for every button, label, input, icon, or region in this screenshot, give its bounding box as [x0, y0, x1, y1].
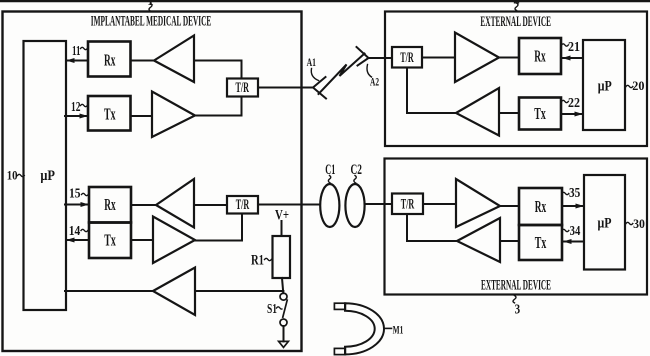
svg-text:20: 20 [632, 79, 644, 93]
svg-text:EXTERNAL DEVICE: EXTERNAL DEVICE [481, 278, 551, 294]
Tx block 22 box [519, 98, 561, 130]
RF link lightning [319, 54, 365, 95]
wire Tx 12 to amp B [131, 115, 153, 117]
wire Tx 34 to amp F [500, 240, 519, 242]
label 12 tilde lead [81, 104, 88, 106]
label 35 tilde lead [562, 192, 569, 194]
svg-text:A2: A2 [370, 77, 379, 89]
page top edge line [0, 0, 650, 2]
wire T/R to amp E [423, 203, 456, 205]
resistor R1 box [273, 236, 291, 278]
Rx block 11 box [88, 42, 131, 77]
svg-text:22: 22 [568, 95, 580, 110]
arrow into Rx 21 (left) [562, 56, 571, 61]
label S1 tilde lead [277, 307, 282, 309]
microprocessor uP 20 box [583, 40, 625, 130]
label C1 squiggle lead [328, 176, 330, 184]
label 30 tilde lead [626, 222, 633, 224]
wire uP 30 to Tx 34 [562, 241, 584, 243]
label 14 tilde lead [81, 229, 88, 231]
wire amp G to T/R [194, 204, 227, 206]
arrow into uP 30 (right) [576, 204, 585, 209]
label 20 tilde lead [626, 85, 633, 87]
implantable medical device outer box [3, 12, 302, 352]
label 21 tilde lead [562, 44, 569, 46]
T/R block (external upper) [392, 47, 422, 68]
wire T/R to coil C1 [258, 204, 320, 206]
svg-text:M1: M1 [393, 324, 404, 336]
wire amp B to T/R bottom [195, 97, 242, 116]
wire Rx 15 to amp G [131, 204, 156, 206]
external device 3 (lower) outer box [385, 159, 648, 295]
svg-text:12: 12 [71, 100, 81, 115]
arrow into Tx 34 (left) [563, 239, 572, 244]
label 11 tilde lead [81, 47, 88, 49]
op-amp E (points right) [456, 179, 500, 227]
microprocessor uP 10 box [24, 41, 67, 310]
T/R block (external lower) [392, 194, 423, 215]
op-amp H (points right) [153, 217, 195, 264]
label C2 squiggle lead [354, 176, 356, 184]
wire switch to ground [283, 326, 285, 341]
svg-text:IMPLANTABEL MEDICAL DEVICE: IMPLANTABEL MEDICAL DEVICE [91, 14, 212, 30]
svg-text:15: 15 [69, 187, 81, 202]
svg-text:Rx: Rx [534, 47, 546, 66]
magnet M1 top pole [334, 303, 345, 309]
wire amp E to Rx 35 [500, 205, 519, 207]
wire Tx 22 to amp D [499, 112, 519, 114]
arrow into Tx (right) [80, 114, 89, 119]
wire uP to Tx 12 [65, 115, 88, 117]
T/R block (implant bottom) [227, 196, 258, 214]
svg-text:Rx: Rx [104, 51, 116, 70]
svg-text:T/R: T/R [400, 50, 414, 66]
op-amp B (transmit, points right) [152, 92, 195, 138]
svg-text:μP: μP [598, 215, 612, 231]
svg-text:1: 1 [147, 0, 154, 8]
coil C1 [320, 184, 339, 227]
switch S1 arm [283, 300, 287, 317]
magnet M1 bottom pole [334, 348, 345, 354]
label 15 tilde lead [82, 193, 89, 195]
svg-text:R1: R1 [251, 253, 264, 269]
op-amp G (points left) [156, 179, 194, 228]
svg-text:3: 3 [515, 302, 521, 317]
wire uP to Rx 15 [65, 204, 89, 206]
wire amp H to T/R bottom [195, 214, 242, 241]
antenna A1 fork [313, 77, 326, 99]
T/R block (implant top) [227, 79, 258, 97]
label 3 squiggle lead [513, 296, 516, 303]
svg-text:Tx: Tx [535, 233, 547, 252]
svg-text:C1: C1 [325, 162, 335, 178]
svg-text:Tx: Tx [104, 231, 116, 250]
label 10 tilde lead [18, 174, 25, 176]
svg-text:Rx: Rx [104, 195, 116, 214]
wire amp C to Rx 21 [499, 57, 519, 59]
label M1 tick lead [384, 327, 391, 329]
svg-text:μP: μP [598, 79, 612, 95]
Tx block 34 box [519, 225, 562, 260]
Tx block 14 box [89, 223, 131, 259]
svg-text:21: 21 [568, 40, 580, 55]
wire amp A to T/R top [194, 61, 242, 79]
svg-text:μP: μP [40, 168, 55, 184]
wire Rx 11 to uP [66, 60, 88, 62]
label R1 tilde lead [265, 258, 272, 260]
arrow into uP 20 (right) [575, 112, 584, 117]
wire antenna A2 to external T/R [369, 57, 393, 59]
wire switch node to amp I [195, 290, 283, 292]
svg-text:34: 34 [570, 224, 581, 239]
svg-text:T/R: T/R [236, 80, 250, 96]
svg-text:10: 10 [7, 168, 18, 182]
ground [279, 341, 289, 347]
svg-text:T/R: T/R [236, 197, 250, 213]
arrow into uP (left) [66, 58, 75, 63]
op-amp A (receive, points left) [154, 36, 194, 83]
label 1 squiggle lead [149, 4, 152, 12]
wire uP 20 to Rx 21 [561, 57, 583, 59]
svg-text:EXTERNAL DEVICE: EXTERNAL DEVICE [480, 14, 551, 30]
wire T/R to amp C [422, 57, 455, 59]
magnet M1 horseshoe body [345, 303, 384, 354]
wire Rx 35 to uP 30 [562, 205, 584, 207]
wire Rx 11 to amplifier [131, 60, 155, 62]
svg-text:11: 11 [72, 44, 81, 59]
coil C2 [345, 184, 364, 227]
label 34 tilde lead [562, 229, 569, 231]
Tx block 12 box [88, 96, 131, 131]
svg-text:2: 2 [513, 0, 520, 7]
antenna A2 fork [357, 47, 369, 66]
microprocessor uP 30 box [584, 175, 625, 270]
arrow into uP (left) [66, 238, 75, 243]
svg-text:30: 30 [633, 217, 645, 231]
wire amp F to T/R [407, 214, 457, 241]
label A1 leader arc [311, 69, 318, 81]
external device 2 (upper) outer box [385, 12, 647, 147]
svg-text:Rx: Rx [535, 197, 547, 216]
svg-text:14: 14 [69, 224, 81, 239]
switch S1 lower contact [280, 319, 287, 326]
wire amp D to T/R [407, 68, 456, 114]
svg-text:T/R: T/R [401, 197, 415, 213]
svg-text:A1: A1 [307, 57, 317, 69]
wire Tx 22 to uP 20 [561, 113, 583, 115]
svg-text:V+: V+ [275, 208, 289, 224]
label 2 squiggle lead [515, 3, 518, 10]
arrow into Rx 15 (right) [81, 202, 90, 207]
wire T/R to antenna A1 [258, 87, 313, 89]
wire coil C2 to T/R [365, 203, 393, 205]
Rx block 15 box [89, 187, 131, 223]
svg-text:Tx: Tx [534, 104, 546, 123]
svg-text:S1: S1 [267, 301, 277, 316]
wire R1 to switch node [282, 278, 283, 293]
wire Tx 14 to uP [66, 239, 89, 241]
switch S1 upper contact [280, 293, 287, 300]
wire amp I to uP [65, 290, 153, 292]
op-amp C (points right) [455, 33, 499, 83]
op-amp I (points left, magnet sense) [153, 268, 195, 316]
wire Tx 14 to amp H [131, 239, 153, 241]
op-amp D (points left) [456, 88, 499, 136]
svg-text:Tx: Tx [104, 104, 116, 123]
label A2 leader arc [367, 65, 372, 78]
svg-text:C2: C2 [351, 162, 362, 178]
svg-text:35: 35 [569, 185, 581, 200]
wire V+ to resistor R1 [281, 221, 283, 236]
Rx block 21 box [519, 38, 561, 74]
Rx block 35 box [519, 188, 562, 225]
label 22 tilde lead [562, 100, 569, 102]
op-amp F (points left) [457, 218, 500, 262]
